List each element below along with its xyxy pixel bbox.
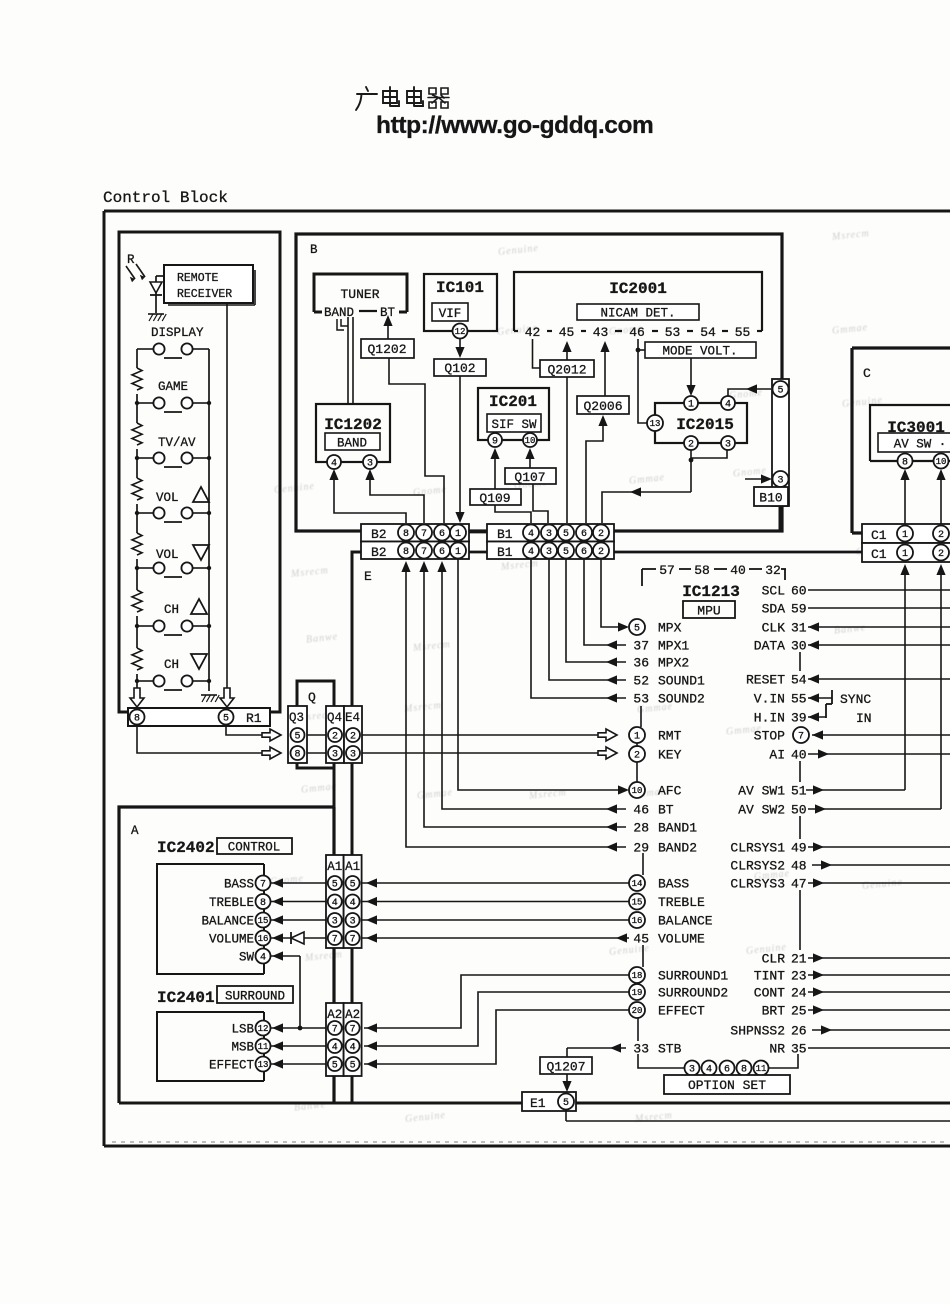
svg-text:SHPNSS2: SHPNSS2 — [730, 1024, 785, 1039]
svg-text:E: E — [364, 569, 372, 584]
svg-text:29: 29 — [633, 841, 649, 856]
svg-text:13: 13 — [258, 1060, 269, 1070]
svg-text:30: 30 — [791, 639, 807, 654]
wire C1 pin2 to IC3001 pin10 — [940, 478, 942, 525]
svg-text:C1: C1 — [871, 528, 887, 543]
box TUNER — [314, 274, 407, 312]
svg-text:Q1202: Q1202 — [367, 342, 406, 357]
svg-text:20: 20 — [632, 1006, 643, 1016]
pin 13 EFFECT of IC2401 — [256, 1057, 271, 1072]
svg-text:55: 55 — [791, 692, 807, 707]
wire stub to B10 pin3 — [745, 478, 764, 480]
wire Q2012 to IC2001 pin45 — [566, 349, 568, 360]
svg-text:45: 45 — [633, 932, 649, 947]
svg-text:AI: AI — [769, 748, 785, 763]
svg-text:AV SW ·: AV SW · — [894, 438, 947, 452]
ic IC201 — [478, 388, 549, 440]
wire STOP — [812, 734, 950, 736]
svg-text:9: 9 — [492, 437, 498, 448]
box NICAM DET. — [577, 304, 699, 320]
svg-text:2: 2 — [688, 440, 694, 451]
svg-text:Q107: Q107 — [514, 470, 545, 485]
svg-text:R: R — [127, 253, 135, 267]
switch TV/AV — [137, 457, 153, 459]
wire STB to Q1207 — [567, 1047, 626, 1049]
svg-text:REMOTE: REMOTE — [177, 272, 219, 285]
svg-text:Q2006: Q2006 — [583, 399, 622, 414]
svg-text:8: 8 — [134, 714, 140, 725]
svg-text:1: 1 — [902, 530, 908, 541]
box CONTROL — [217, 838, 292, 854]
svg-text:CLRSYS2: CLRSYS2 — [730, 859, 785, 874]
pin 4 SW of IC2402 — [256, 949, 271, 964]
svg-text:IC2015: IC2015 — [676, 416, 734, 434]
svg-text:3: 3 — [350, 917, 356, 928]
svg-text:57: 57 — [659, 563, 675, 578]
pin 15 BALANCE of IC2402 — [256, 913, 271, 928]
pin 8 TREBLE of IC2402 — [256, 894, 271, 909]
svg-text:4: 4 — [332, 898, 338, 909]
wire E4 pin2 to RMT — [362, 734, 598, 736]
wire B1-2 pin4 to SOUND2 — [531, 559, 626, 698]
svg-text:15: 15 — [258, 916, 269, 926]
svg-text:TREBLE: TREBLE — [658, 895, 705, 910]
connector B2 row2 — [361, 542, 469, 560]
block B — [296, 234, 782, 531]
transistor Q109 — [470, 489, 521, 505]
block R panel — [119, 232, 280, 712]
svg-text:1: 1 — [634, 732, 640, 743]
svg-text:CLK: CLK — [762, 621, 786, 636]
box SURROUND — [217, 986, 293, 1003]
svg-text:CONT: CONT — [754, 986, 785, 1001]
svg-text:KEY: KEY — [658, 748, 682, 763]
ground (photodiode) — [148, 313, 164, 315]
svg-text:5: 5 — [563, 529, 569, 540]
svg-text:13: 13 — [650, 419, 661, 429]
svg-text:Q109: Q109 — [479, 491, 510, 506]
svg-text:CLRSYS3: CLRSYS3 — [730, 877, 785, 892]
block C — [852, 348, 950, 533]
svg-text:VIF: VIF — [439, 307, 462, 321]
switch VOL down — [137, 567, 153, 569]
svg-text:7: 7 — [350, 935, 356, 946]
wire AV SW2 to C1-2 pin2 — [808, 808, 941, 810]
svg-text:TINT: TINT — [754, 969, 785, 984]
svg-text:6: 6 — [724, 1065, 730, 1076]
wire E bus bottom — [119, 1102, 950, 1105]
svg-text:4: 4 — [260, 953, 266, 964]
svg-text:IC1202: IC1202 — [324, 416, 382, 434]
ic IC101 — [424, 274, 497, 331]
svg-text:IC2402: IC2402 — [157, 839, 215, 857]
svg-text:26: 26 — [791, 1024, 807, 1039]
svg-text:5: 5 — [350, 1061, 356, 1072]
switch CH down — [137, 680, 153, 682]
svg-text:8: 8 — [260, 898, 266, 909]
wire B1 pin6 to Q2006 — [598, 415, 607, 426]
svg-text:Q2012: Q2012 — [547, 363, 586, 378]
svg-text:5: 5 — [294, 732, 300, 743]
svg-text:35: 35 — [791, 1042, 807, 1057]
connector B2 row1 — [361, 524, 469, 542]
decor watermark noise — [0, 0, 950, 1]
wire SCL — [808, 589, 950, 591]
svg-text:LSB: LSB — [231, 1023, 254, 1037]
wire Q3 to Q4 row3 — [307, 752, 326, 754]
svg-text:Control Block: Control Block — [103, 189, 228, 207]
resistor ladder R3 — [132, 478, 142, 500]
svg-text:Q4: Q4 — [327, 711, 342, 725]
block A — [119, 807, 334, 1103]
svg-text:Q1207: Q1207 — [546, 1060, 585, 1075]
svg-text:BAND: BAND — [324, 306, 354, 320]
svg-text:AV SW2: AV SW2 — [738, 803, 785, 818]
svg-text:RESET: RESET — [746, 673, 785, 688]
svg-text:A1: A1 — [327, 860, 342, 874]
pin 12 LSB of IC2401 — [256, 1021, 271, 1036]
svg-text:B1: B1 — [497, 545, 513, 560]
resistor ladder R2 — [132, 423, 142, 445]
connector A1 right — [344, 855, 362, 948]
wire MSB row — [270, 1045, 362, 1047]
svg-text:40: 40 — [730, 563, 746, 578]
svg-text:1: 1 — [688, 400, 694, 411]
svg-text:37: 37 — [633, 639, 649, 654]
box AV SW — [878, 433, 950, 452]
wire option set bracket right — [769, 1054, 798, 1068]
wire SURROUND1 to A2 pin7 — [364, 975, 629, 1028]
transistor Q1202 — [361, 339, 414, 358]
pin 13 of IC2015 — [647, 415, 663, 431]
connector A2 left — [326, 1003, 344, 1076]
wire EFFECT to A2 pin5 — [364, 1010, 629, 1064]
wire LSB row — [270, 1027, 362, 1029]
ic IC1202 — [316, 404, 390, 462]
svg-text:3: 3 — [725, 440, 731, 451]
svg-text:SYNC: SYNC — [840, 692, 871, 707]
pin 12 of IC101 — [453, 324, 468, 339]
svg-text:SW: SW — [239, 951, 255, 965]
svg-text:4: 4 — [706, 1065, 712, 1076]
svg-text:3: 3 — [332, 750, 338, 761]
wire Q1207 to E1 — [566, 1074, 568, 1084]
wire BAND dash — [359, 310, 377, 312]
svg-text:TUNER: TUNER — [340, 287, 379, 302]
wire Q1202 to BT — [387, 322, 389, 340]
svg-text:2: 2 — [598, 529, 604, 540]
svg-text:C: C — [863, 366, 871, 381]
svg-text:CLR: CLR — [762, 952, 786, 967]
wire stub 30 to 54 — [799, 652, 801, 671]
svg-text:EFFECT: EFFECT — [209, 1059, 255, 1073]
wire AV SW1 to C1-2 pin1 — [806, 789, 905, 791]
connector B1 row1 — [487, 524, 614, 542]
svg-text:A: A — [131, 824, 139, 838]
outer border of control block — [104, 211, 950, 1146]
svg-text:SOUND2: SOUND2 — [658, 692, 705, 707]
wire stub 40 to 51 — [799, 761, 801, 782]
wire BT to B2-2 pin6 — [442, 570, 626, 809]
ic IC2015 — [655, 403, 747, 443]
svg-text:16: 16 — [258, 934, 269, 944]
svg-text:5: 5 — [332, 880, 338, 891]
svg-text:BASS: BASS — [658, 877, 689, 892]
svg-text:16: 16 — [632, 916, 643, 926]
svg-text:7: 7 — [798, 732, 804, 743]
pin 4 of IC2015 — [721, 396, 735, 410]
wire B10 to B block bottom — [779, 506, 782, 531]
svg-text:12: 12 — [258, 1024, 269, 1034]
svg-text:5: 5 — [563, 547, 569, 558]
svg-text:IC1213: IC1213 — [682, 583, 740, 601]
svg-text:12: 12 — [455, 327, 466, 337]
pin 11 MSB of IC2401 — [256, 1039, 271, 1054]
wire CLK — [808, 626, 950, 628]
svg-text:NR: NR — [769, 1042, 785, 1057]
wire Q2012 to B1 pin5 — [566, 377, 568, 523]
wire B1 row2 to C1 row2 — [614, 551, 862, 554]
svg-text:MODE VOLT.: MODE VOLT. — [662, 345, 737, 359]
svg-text:15: 15 — [632, 898, 643, 908]
box REMOTE RECEIVER — [164, 265, 253, 303]
svg-text:B10: B10 — [759, 491, 782, 506]
svg-text:IC101: IC101 — [436, 279, 484, 297]
svg-text:CLRSYS1: CLRSYS1 — [730, 841, 785, 856]
wire gap row2 — [469, 551, 487, 554]
pin 10 of IC3001 — [934, 454, 949, 469]
wire SDA — [808, 607, 950, 609]
svg-text:3: 3 — [777, 476, 783, 487]
wire SHPNSS2 — [812, 1029, 950, 1031]
wire Q107 to IC201 pin10 — [525, 448, 534, 459]
switch CH up — [137, 625, 153, 627]
svg-text:SURROUND1: SURROUND1 — [658, 969, 728, 984]
svg-text:SDA: SDA — [762, 602, 786, 617]
svg-text:31: 31 — [791, 621, 807, 636]
pin 2 KEY of IC1213 — [629, 746, 645, 762]
wire stub EFFECT to 33 — [637, 1018, 639, 1041]
block Q — [297, 681, 334, 768]
svg-text:IC201: IC201 — [489, 393, 537, 411]
arrow remote to R1 pin5 — [220, 688, 234, 707]
svg-text:GAME: GAME — [158, 380, 188, 394]
wire Q102 to B2 pin1 — [459, 376, 461, 514]
svg-text:CH: CH — [164, 603, 179, 617]
transistor Q107 — [505, 468, 556, 484]
wire IC2001 pin46 to IC2015 pin13 — [638, 339, 647, 423]
svg-text:MPX: MPX — [658, 621, 682, 636]
svg-text:3: 3 — [546, 529, 552, 540]
svg-text:VOL: VOL — [156, 491, 179, 505]
wire H.IN sync — [808, 716, 826, 718]
wire SURROUND2 to A2 pin4 — [364, 992, 629, 1046]
svg-text:OPTION SET: OPTION SET — [688, 1078, 766, 1093]
svg-text:8: 8 — [294, 750, 300, 761]
wire IC2015 pin4 to B10 pin5 — [728, 389, 771, 396]
svg-text:53: 53 — [665, 325, 681, 340]
wire R1 pin8 to Q3 pin8 — [137, 726, 262, 753]
svg-text:2: 2 — [938, 549, 944, 560]
wire VOLUME row — [270, 937, 629, 939]
svg-text:A1: A1 — [345, 860, 360, 874]
svg-text:43: 43 — [593, 325, 609, 340]
title text (chinese) — [356, 87, 449, 110]
pin 2 of IC2015 — [684, 436, 698, 450]
photodiode — [155, 276, 157, 313]
svg-text:TV/AV: TV/AV — [158, 436, 196, 450]
svg-text:STB: STB — [658, 1042, 682, 1057]
pin 5 MPX of IC1213 — [629, 619, 645, 635]
svg-text:TREBLE: TREBLE — [209, 896, 254, 910]
svg-text:CH: CH — [164, 658, 179, 672]
svg-text:MPX2: MPX2 — [658, 656, 689, 671]
svg-text:7: 7 — [260, 880, 266, 891]
svg-text:5: 5 — [777, 386, 783, 397]
wire stub 50 to 49 — [799, 816, 801, 839]
svg-text:2: 2 — [350, 732, 356, 743]
svg-text:2: 2 — [938, 530, 944, 541]
svg-text:6: 6 — [439, 529, 445, 540]
wire IC2001 pin42 to Q2012 — [533, 339, 541, 368]
wire EFFECT row — [270, 1063, 362, 1065]
wire BAND1 to B2-2 pin7 — [424, 570, 626, 827]
wire IC2015 pins2,3 to B1 pin2 — [690, 450, 692, 492]
pin 4 of IC1202 — [327, 455, 341, 469]
pin 3 of IC1202 — [363, 455, 377, 469]
svg-text:50: 50 — [791, 803, 807, 818]
ic IC2402 outline — [157, 864, 264, 974]
wire DATA — [808, 644, 950, 646]
wire B2-2 pin1 to AFC — [458, 559, 619, 790]
svg-text:B2: B2 — [371, 527, 387, 542]
svg-text:SIF SW: SIF SW — [491, 418, 537, 432]
svg-text:NICAM DET.: NICAM DET. — [600, 307, 675, 321]
svg-text:40: 40 — [791, 748, 807, 763]
pin 14 BASS of IC1213 — [629, 875, 645, 891]
svg-text:A2: A2 — [345, 1008, 360, 1022]
svg-text:MSB: MSB — [231, 1041, 254, 1055]
svg-text:7: 7 — [350, 1025, 356, 1036]
svg-text:47: 47 — [791, 877, 807, 892]
svg-text:BALANCE: BALANCE — [201, 915, 254, 929]
ic IC2401 outline — [157, 1012, 264, 1081]
svg-text:4: 4 — [725, 400, 731, 411]
svg-text:4: 4 — [350, 1043, 356, 1054]
box MPU — [683, 601, 735, 618]
svg-text:B1: B1 — [497, 527, 513, 542]
svg-text:32: 32 — [765, 563, 781, 578]
svg-text:8: 8 — [403, 547, 409, 558]
svg-text:DATA: DATA — [754, 639, 785, 654]
svg-text:EFFECT: EFFECT — [658, 1004, 705, 1019]
svg-text:10: 10 — [525, 436, 536, 446]
wire SW pin to LSB row — [270, 955, 300, 957]
svg-text:VOL: VOL — [156, 548, 179, 562]
svg-text:R1: R1 — [246, 711, 262, 726]
box OPTION SET — [664, 1075, 790, 1094]
svg-text:8: 8 — [403, 529, 409, 540]
svg-text:18: 18 — [632, 971, 643, 981]
pin 10 of IC201 — [523, 433, 537, 447]
svg-text:SURROUND: SURROUND — [225, 990, 285, 1004]
wire stub RMT to KEY — [636, 743, 638, 747]
svg-text:6: 6 — [439, 547, 445, 558]
svg-text:A2: A2 — [327, 1008, 342, 1022]
svg-text:4: 4 — [528, 547, 534, 558]
svg-text:CONTROL: CONTROL — [228, 841, 281, 855]
svg-text:E1: E1 — [530, 1096, 546, 1111]
svg-text:51: 51 — [791, 784, 807, 799]
resistor ladder R5 — [132, 590, 142, 612]
svg-text:http://www.go-gddq.com: http://www.go-gddq.com — [376, 112, 653, 139]
svg-text:Q3: Q3 — [289, 711, 304, 725]
wire TINT — [808, 974, 950, 976]
svg-text:RMT: RMT — [658, 729, 682, 744]
svg-text:Q: Q — [308, 690, 316, 705]
svg-text:10: 10 — [632, 786, 643, 796]
svg-text:SCL: SCL — [762, 584, 785, 599]
wire Q109 to B1 pin4 — [495, 505, 531, 523]
pin 1 of IC2015 — [684, 396, 698, 410]
pin 3 of IC2015 — [721, 436, 735, 450]
wire B1-2 pin6 to MPX1 — [584, 559, 626, 645]
switch DISPLAY — [137, 348, 153, 350]
wire BAND2 to B2-2 pin8 — [406, 570, 626, 847]
switch VOL up — [137, 512, 153, 514]
wire TREBLE row — [270, 901, 629, 903]
pin 8 of IC3001 — [898, 454, 913, 469]
wire CONT — [808, 991, 950, 993]
box SIF SW — [487, 414, 541, 432]
svg-text:36: 36 — [633, 656, 649, 671]
svg-text:39: 39 — [791, 711, 807, 726]
svg-text:28: 28 — [633, 821, 649, 836]
wire CLRSYS1 — [808, 846, 950, 848]
wire B1-2 pin3 to SOUND1 — [549, 559, 626, 680]
wire stub 53 to RMT — [640, 706, 642, 727]
pins option set 3 4 6 8 11 — [685, 1061, 700, 1076]
svg-text:BAND: BAND — [337, 437, 367, 451]
wire sync bracket — [831, 690, 833, 704]
pin 18 SURROUND1 of IC1213 — [629, 967, 645, 983]
connector B10 — [772, 379, 789, 506]
svg-text:AFC: AFC — [658, 784, 682, 799]
wire Q1202 to B2 pin6 — [389, 358, 444, 523]
pin 1 RMT of IC1213 — [629, 727, 645, 743]
transistor Q2012 — [540, 360, 594, 377]
wire Q2006 to IC2001 pin43 — [604, 349, 606, 396]
svg-text:3: 3 — [367, 459, 373, 470]
svg-text:1: 1 — [455, 529, 461, 540]
ic IC2001 — [514, 272, 762, 331]
wire gap row1 — [469, 531, 487, 534]
diode on VOLUME row — [291, 932, 304, 944]
svg-text:3: 3 — [689, 1065, 695, 1076]
connector E4 — [344, 706, 362, 763]
box VIF — [432, 303, 468, 321]
svg-text:60: 60 — [791, 584, 807, 599]
svg-text:AV SW1: AV SW1 — [738, 784, 785, 799]
svg-text:4: 4 — [528, 529, 534, 540]
svg-text:BAND2: BAND2 — [658, 841, 697, 856]
wire stub 47 to 21 — [799, 890, 801, 950]
svg-text:Q102: Q102 — [444, 361, 475, 376]
connector C1 row2 — [862, 543, 950, 562]
wire CLRSYS3 — [808, 882, 950, 884]
svg-text:59: 59 — [791, 602, 807, 617]
svg-text:33: 33 — [633, 1042, 649, 1057]
